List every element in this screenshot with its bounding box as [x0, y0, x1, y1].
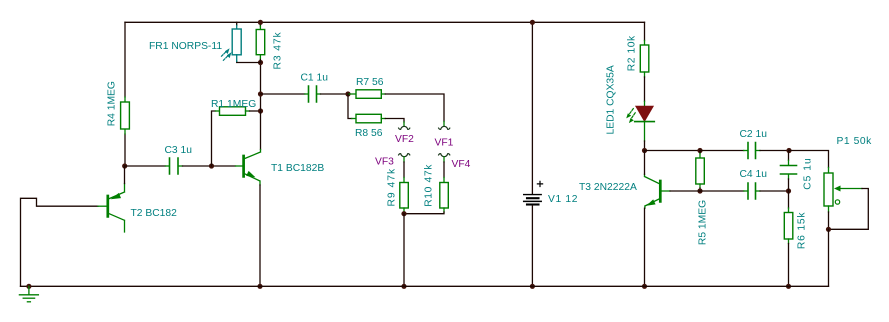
svg-text:R4 1MEG: R4 1MEG	[107, 81, 118, 126]
capacitor C3	[170, 158, 179, 174]
resistor R10	[440, 178, 449, 213]
wire collector bus	[645, 150, 701, 152]
svg-text:C1 1u: C1 1u	[301, 73, 329, 84]
LED LED1	[626, 106, 654, 141]
node C4/C5/R6 junction	[786, 188, 791, 193]
resistor R3	[256, 22, 265, 62]
svg-text:VF1: VF1	[435, 138, 454, 149]
svg-text:R1 1MEG: R1 1MEG	[211, 99, 256, 110]
wire base bus to C4	[700, 190, 744, 192]
resistor R9	[400, 178, 409, 213]
wire left drop to R4	[124, 22, 126, 166]
svg-text:V1 12: V1 12	[548, 194, 578, 205]
svg-text:LED1 CQX35A: LED1 CQX35A	[606, 65, 617, 134]
node LED/T3 collector	[642, 148, 647, 153]
svg-text:C2 1u: C2 1u	[740, 129, 768, 140]
node R4/C3/T2 junction	[122, 163, 127, 168]
wire T3 base	[670, 190, 700, 192]
wire LED to node	[644, 141, 646, 151]
wire R1 left leg	[212, 111, 216, 166]
wire drop to rail	[403, 214, 405, 287]
wire top rail	[125, 21, 645, 23]
wire to C2	[700, 150, 744, 152]
wire C1 link	[261, 93, 305, 95]
wire P1 wiper loop	[829, 189, 869, 230]
svg-text:VF2: VF2	[395, 134, 414, 145]
terminal VF1	[439, 126, 450, 129]
node R1 right junction	[258, 108, 263, 113]
resistor R7	[348, 90, 385, 99]
wire T2 collector up	[124, 166, 126, 184]
svg-text:T1 BC182B: T1 BC182B	[271, 163, 324, 174]
wire battery bottom	[531, 206, 533, 287]
node rail R6	[786, 284, 791, 289]
resistor R8	[352, 114, 386, 123]
capacitor C2	[748, 143, 756, 159]
node C2/C5/P1 junction	[786, 148, 791, 153]
node P1 bottom junction	[826, 227, 831, 232]
wire T3 collector	[644, 151, 646, 175]
terminal VF4	[439, 154, 450, 157]
node R5 bottom / T3 base	[697, 188, 702, 193]
node top rail R3	[258, 20, 263, 25]
node C3/R1 junction	[209, 163, 214, 168]
wire R2 to LED	[644, 77, 646, 101]
svg-text:C5 1u: C5 1u	[803, 157, 814, 189]
resistor R1	[220, 107, 250, 116]
resistor R4	[121, 97, 130, 134]
resistor R2	[640, 22, 649, 77]
svg-text:R10 47k: R10 47k	[424, 164, 435, 207]
capacitor C1	[309, 86, 317, 102]
wire VF4 to R10	[443, 157, 445, 162]
svg-text:C3 1u: C3 1u	[165, 145, 193, 156]
wire R8 to VF2	[385, 119, 404, 123]
svg-text:R6 15k: R6 15k	[797, 212, 808, 249]
svg-text:P1 50k: P1 50k	[837, 136, 873, 147]
node C1 branch junction	[258, 91, 263, 96]
svg-text:VF4: VF4	[452, 159, 471, 170]
wire right riser	[828, 229, 830, 286]
wire T1 emitter down	[259, 185, 261, 286]
resistor R5	[696, 151, 705, 192]
wire main vertical x260	[260, 63, 262, 150]
node ground junction	[26, 284, 31, 289]
wire R8 branch	[348, 94, 352, 119]
node R5 top	[697, 148, 702, 153]
svg-text:T3 2N2222A: T3 2N2222A	[579, 182, 637, 193]
svg-text:FR1 NORPS-11: FR1 NORPS-11	[149, 41, 222, 52]
wire C3 right to T1 base	[179, 165, 183, 167]
node R7/R8 branch	[345, 91, 350, 96]
wire FR1 bottom link	[237, 61, 261, 62]
node top rail battery	[530, 20, 535, 25]
node rail T3 emitter	[642, 284, 647, 289]
node FR1/R3 bottom junction	[258, 60, 263, 65]
transistor T2	[98, 184, 125, 233]
transistor T1	[244, 150, 261, 186]
wire T3 emitter	[644, 208, 646, 286]
wire battery top	[531, 22, 533, 194]
wire R7 to VF1	[385, 94, 444, 122]
svg-text:R2 10k: R2 10k	[627, 35, 638, 71]
svg-text:R3 47k: R3 47k	[273, 31, 284, 69]
svg-text:R5 1MEG: R5 1MEG	[698, 200, 709, 245]
capacitor C5	[781, 151, 797, 192]
node R9 bottom	[401, 211, 406, 216]
ground	[19, 286, 38, 302]
svg-text:R7 56: R7 56	[356, 77, 384, 88]
battery V1	[524, 181, 543, 204]
wire R9/R10 bottoms	[404, 212, 444, 214]
node rail battery	[530, 284, 535, 289]
svg-text:T2 BC182: T2 BC182	[131, 208, 178, 219]
capacitor C4	[748, 183, 756, 199]
wire to P1	[789, 151, 829, 168]
potentiometer P1	[824, 173, 862, 212]
resistor R6	[784, 191, 793, 286]
svg-text:VF3: VF3	[375, 157, 394, 168]
terminal VF2	[399, 126, 410, 129]
svg-text:R9 47k: R9 47k	[387, 168, 398, 207]
wire P1 bottom	[828, 212, 830, 229]
photoresistor FR1	[222, 22, 242, 61]
svg-text:R8 56: R8 56	[355, 128, 383, 139]
wire C3 left	[125, 165, 166, 167]
svg-text:C4 1u: C4 1u	[740, 169, 768, 180]
transistor T3	[645, 174, 671, 208]
node rail R9 drop	[401, 284, 406, 289]
wire left riser with step	[21, 198, 99, 286]
node T1 emitter at rail	[257, 284, 262, 289]
wire R1 right	[250, 110, 261, 112]
wire VF3 to R9	[403, 157, 405, 162]
wire bottom rail	[21, 285, 829, 287]
terminal VF3	[399, 154, 410, 157]
